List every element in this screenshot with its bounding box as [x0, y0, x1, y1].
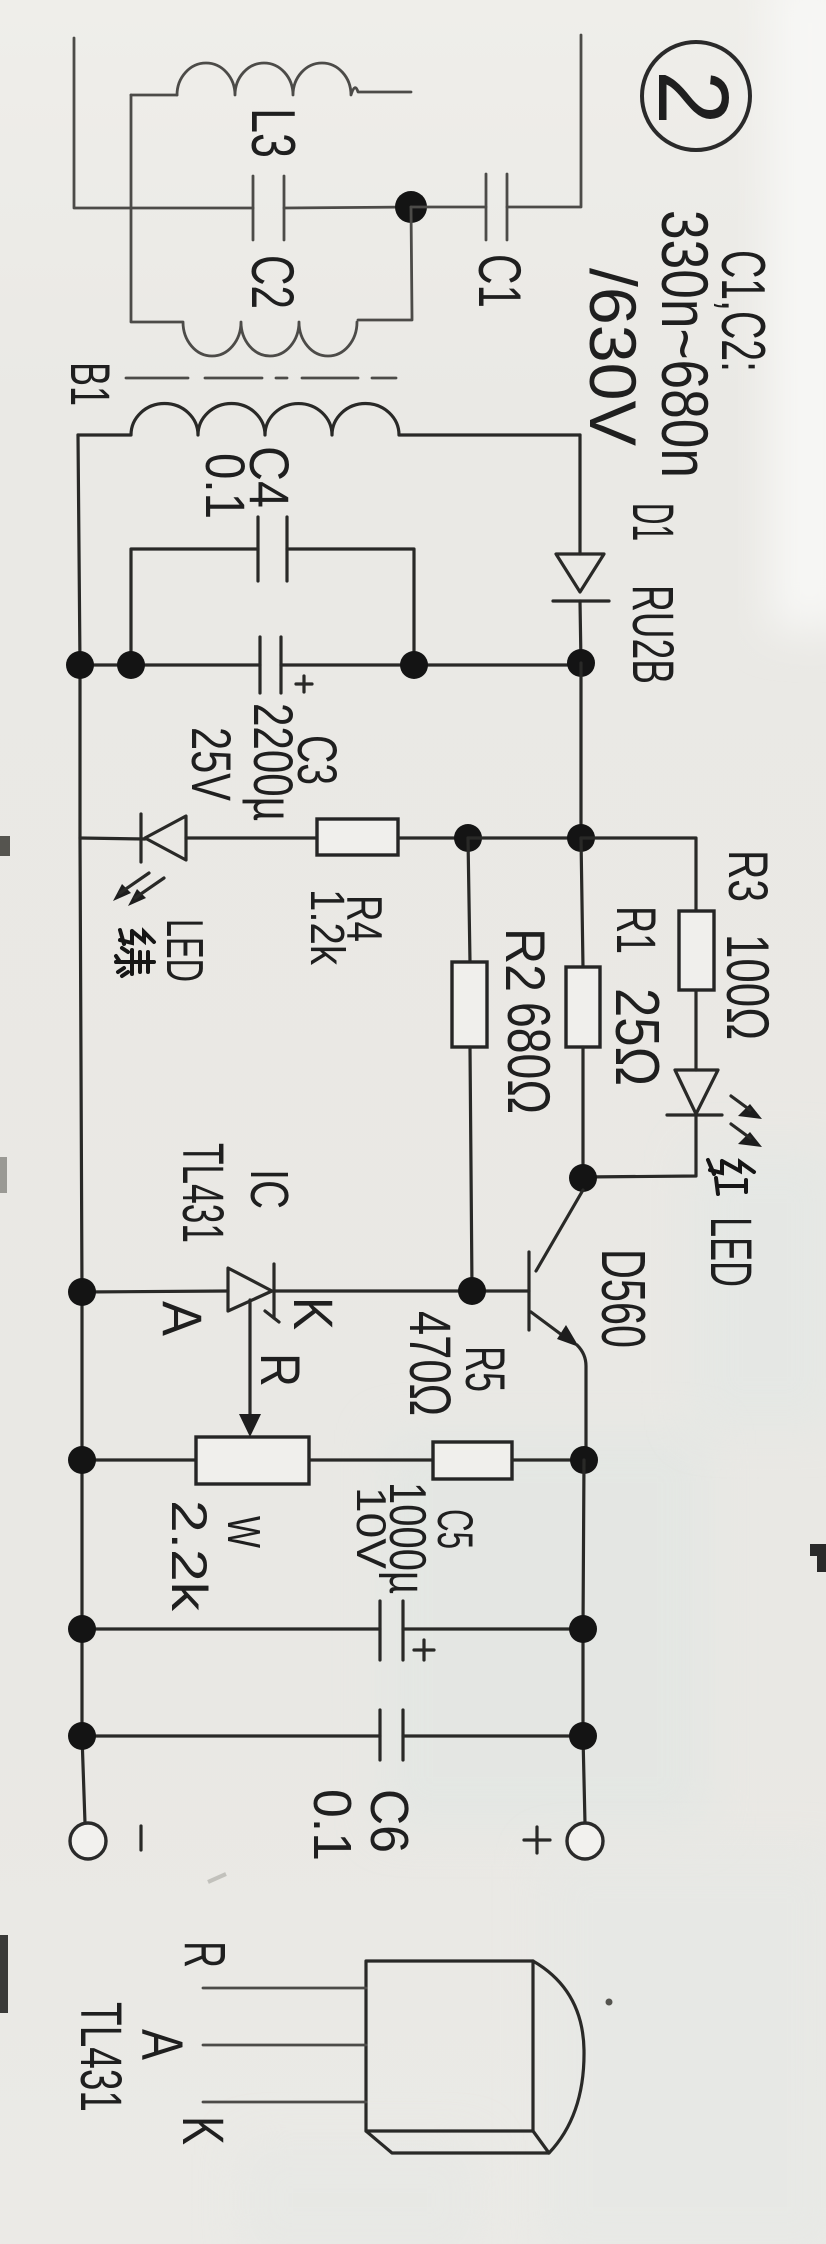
inductor L3 — [131, 63, 411, 158]
wire rail to C3 — [80, 663, 260, 666]
wire TL431 K to base — [274, 1289, 529, 1292]
svg-text:0.1: 0.1 — [194, 453, 257, 519]
transformer B1 primary winding — [131, 322, 357, 356]
svg-text:LED: LED — [155, 919, 213, 982]
capacitor C3 electrolytic — [180, 637, 349, 821]
pin K lead — [203, 2101, 366, 2104]
wire secondary to D1 — [578, 435, 581, 554]
node C4 right — [400, 651, 428, 679]
wire left rail — [78, 435, 85, 1823]
node junction top — [395, 191, 427, 223]
label green hanzi — [116, 930, 154, 976]
wire red LED to node — [583, 1115, 696, 1177]
capacitor C4 — [131, 446, 414, 665]
wire C2 to node — [284, 207, 411, 208]
wire rail to C6 — [82, 1734, 380, 1737]
svg-text:680Ω: 680Ω — [495, 1002, 562, 1114]
svg-text:A: A — [129, 2029, 194, 2060]
node emitter row — [570, 1446, 598, 1474]
note C1,C2: 330n~680n /630V — [576, 210, 777, 478]
wire rail to LED green — [80, 838, 145, 839]
capacitor C2 — [239, 176, 306, 309]
resistor R4 — [300, 819, 398, 966]
svg-text:330n~680n: 330n~680n — [648, 210, 722, 478]
wire R5 to emitter node — [512, 1458, 585, 1461]
wire C3 to D1 node — [281, 663, 581, 666]
wire rail to C5 — [82, 1627, 380, 1630]
svg-text:TL431: TL431 — [68, 2002, 133, 2112]
svg-text:C6: C6 — [359, 1789, 419, 1853]
figure number 2 — [637, 42, 750, 150]
terminal positive — [524, 1823, 603, 1859]
node R4-R2 — [454, 824, 482, 852]
svg-text:25V: 25V — [180, 727, 243, 801]
svg-text:RU2B: RU2B — [620, 585, 685, 684]
resistor R3 — [679, 850, 781, 1070]
svg-text:2.2k: 2.2k — [161, 1500, 217, 1612]
node rail-C3 — [66, 651, 94, 679]
svg-text:R1: R1 — [605, 906, 668, 954]
capacitor C5 electrolytic — [348, 1482, 483, 1660]
wire node down to B1 primary — [358, 207, 412, 320]
svg-text:470Ω: 470Ω — [397, 1311, 462, 1416]
node C5 right — [569, 1615, 597, 1643]
svg-text:K: K — [170, 2116, 235, 2145]
node rail C5 row — [68, 1615, 96, 1643]
svg-text:R: R — [172, 1941, 237, 1968]
node base wire — [458, 1277, 486, 1305]
IC TL431 — [151, 1143, 345, 1387]
node D1 output — [567, 649, 595, 677]
LED red — [667, 1070, 762, 1147]
svg-text:25Ω: 25Ω — [602, 988, 671, 1086]
svg-text:R: R — [249, 1353, 312, 1387]
wire D1 node down — [579, 663, 582, 838]
label red hanzi — [708, 1160, 754, 1194]
wire node to R3 branch — [581, 838, 696, 911]
resistor R2 — [452, 838, 562, 1289]
svg-text:10V: 10V — [348, 1487, 395, 1569]
wire C6 to right rail — [403, 1734, 583, 1737]
svg-text:A: A — [151, 1301, 214, 1337]
TL431 package outline — [366, 1961, 584, 2153]
svg-text:IC: IC — [239, 1169, 299, 1209]
wire rail to TL431 — [82, 1291, 228, 1292]
svg-text:2200µ: 2200µ — [242, 703, 305, 821]
potentiometer W 2.2k — [161, 1437, 309, 1612]
wire R4 to node — [398, 836, 468, 839]
resistor R1 — [566, 838, 671, 1178]
wire L3 left to B1 primary — [130, 95, 133, 321]
node C6 right — [569, 1722, 597, 1750]
terminal negative — [70, 1823, 141, 1859]
svg-text:W: W — [218, 1516, 270, 1548]
wire C1 to right mains lead — [507, 35, 581, 207]
svg-text:C2: C2 — [239, 255, 306, 309]
svg-text:L3: L3 — [238, 108, 307, 158]
svg-text:1.2k: 1.2k — [300, 889, 353, 966]
wire right rail — [583, 1460, 585, 1823]
wire left mains lead — [74, 38, 253, 208]
wire TL431 R lead — [239, 1300, 261, 1437]
svg-text:R3: R3 — [717, 850, 780, 902]
svg-text:/630V: /630V — [576, 268, 650, 446]
node rail C6 row — [68, 1722, 96, 1750]
pin R lead — [203, 1987, 366, 1990]
node C4 left — [117, 651, 145, 679]
capacitor C1 — [466, 174, 533, 308]
svg-text:TL431: TL431 — [170, 1143, 235, 1243]
LED green — [113, 814, 186, 906]
transformer B1 core — [126, 377, 396, 380]
svg-text:R5: R5 — [454, 1346, 517, 1392]
svg-text:0.1: 0.1 — [302, 1789, 362, 1861]
svg-text:100Ω: 100Ω — [714, 934, 781, 1040]
wire node to node — [468, 836, 581, 839]
node collector — [569, 1164, 597, 1192]
svg-text:R2: R2 — [494, 928, 557, 992]
capacitor C6 — [302, 1710, 419, 1861]
diode D1 — [553, 503, 685, 684]
wire LED to R4 — [186, 836, 317, 839]
svg-text:K: K — [282, 1297, 345, 1330]
svg-text:D560: D560 — [588, 1249, 657, 1348]
transistor D560 — [529, 1190, 657, 1447]
svg-text:B1: B1 — [59, 362, 122, 406]
wire D1 to node — [580, 601, 581, 663]
svg-text:D1: D1 — [620, 503, 685, 541]
svg-text:LED: LED — [698, 1217, 763, 1287]
wire C5 to right rail — [403, 1627, 583, 1630]
svg-text:C1: C1 — [466, 254, 533, 308]
transformer B1 secondary winding — [78, 404, 580, 435]
wire rail to pot W — [82, 1458, 196, 1461]
node rail TL431 row — [68, 1278, 96, 1306]
resistor R5 — [397, 1311, 517, 1479]
pin A lead — [203, 2044, 366, 2047]
wire node to C1 — [411, 206, 486, 209]
node rail pot row — [68, 1446, 96, 1474]
svg-text:2: 2 — [637, 70, 749, 125]
wire pot to R5 — [309, 1458, 433, 1461]
node R1 top — [567, 824, 595, 852]
